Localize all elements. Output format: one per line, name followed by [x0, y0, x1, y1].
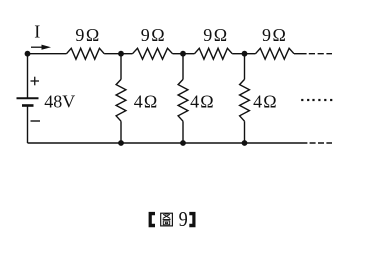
ellipsis dots middle right — [301, 99, 332, 101]
node D — [242, 51, 248, 57]
wire R5 to bottom rail — [120, 121, 122, 143]
resistor R3 9ohm — [195, 48, 233, 59]
wire R1 to node B — [104, 53, 121, 55]
wire node C to R3 — [183, 53, 195, 55]
wire node C down lead — [182, 54, 184, 80]
svg-text:I: I — [34, 22, 40, 42]
wire node D to R4 — [245, 53, 256, 55]
svg-text:9Ω: 9Ω — [75, 25, 100, 45]
current arrow for I — [31, 45, 51, 50]
dashed continuation top — [309, 53, 332, 55]
wire battery top lead — [27, 54, 29, 99]
caption right lens bracket — [189, 212, 195, 227]
battery V1 plate short — [22, 104, 34, 107]
wire node B to R2 — [121, 53, 133, 55]
battery minus sign — [31, 120, 41, 122]
wire node D down lead — [244, 54, 246, 80]
svg-text:4Ω: 4Ω — [134, 92, 159, 112]
caption left lens bracket — [149, 212, 155, 227]
wire bottom rail — [28, 142, 308, 144]
resistor R1 9ohm — [67, 48, 105, 59]
svg-text:4Ω: 4Ω — [190, 92, 215, 112]
battery V1 plate long — [17, 97, 39, 99]
resistor R4 9ohm — [256, 48, 295, 59]
svg-text:9: 9 — [179, 208, 188, 232]
battery plus sign — [31, 77, 40, 86]
svg-text:9Ω: 9Ω — [141, 25, 166, 45]
wire node B down lead — [120, 54, 122, 80]
svg-text:48V: 48V — [44, 92, 75, 112]
resistor R5 4ohm — [116, 79, 126, 121]
resistor R2 9ohm — [133, 48, 173, 59]
wire top from node A to R1 — [28, 53, 67, 55]
node B — [118, 51, 124, 57]
node C bottom — [180, 140, 186, 146]
resistor R6 4ohm — [178, 79, 188, 121]
caption character tu (figure) — [161, 213, 173, 226]
resistor R7 4ohm — [240, 79, 250, 121]
node A — [25, 51, 31, 57]
node C — [180, 51, 186, 57]
wire R7 to bottom rail — [244, 121, 246, 143]
wire R2 to node C — [173, 53, 184, 55]
svg-text:9Ω: 9Ω — [203, 25, 228, 45]
wire R3 to node D — [232, 53, 244, 55]
wire battery bottom lead — [27, 106, 29, 144]
wire R6 to bottom rail — [182, 121, 184, 143]
node B bottom — [118, 140, 124, 146]
dashed continuation bottom — [310, 142, 332, 144]
svg-text:9Ω: 9Ω — [262, 25, 287, 45]
node D bottom — [242, 140, 248, 146]
svg-text:4Ω: 4Ω — [253, 92, 278, 112]
wire R4 to dashed continuation — [294, 53, 307, 55]
